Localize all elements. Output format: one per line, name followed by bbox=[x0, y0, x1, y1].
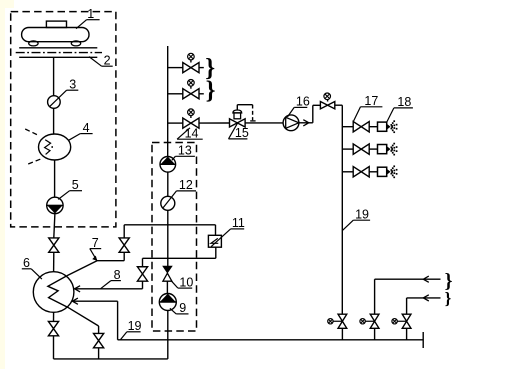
svg-text:4: 4 bbox=[83, 121, 90, 135]
svg-text:12: 12 bbox=[179, 178, 193, 192]
svg-text:3: 3 bbox=[69, 77, 76, 91]
svg-text:10: 10 bbox=[179, 275, 193, 289]
svg-text:8: 8 bbox=[114, 268, 121, 282]
svg-text:19: 19 bbox=[128, 319, 142, 333]
svg-text:2: 2 bbox=[104, 53, 111, 67]
svg-text:5: 5 bbox=[72, 178, 79, 192]
svg-text:7: 7 bbox=[92, 236, 99, 250]
svg-text:16: 16 bbox=[296, 95, 310, 109]
svg-text:13: 13 bbox=[178, 144, 192, 158]
svg-text:19: 19 bbox=[355, 207, 369, 221]
svg-text:9: 9 bbox=[179, 301, 186, 315]
svg-text:11: 11 bbox=[232, 216, 245, 230]
svg-text:6: 6 bbox=[23, 256, 30, 270]
svg-text:17: 17 bbox=[364, 94, 378, 108]
svg-text:}: } bbox=[445, 289, 452, 308]
svg-text:1: 1 bbox=[87, 7, 94, 21]
svg-text:18: 18 bbox=[397, 95, 411, 109]
svg-text:14: 14 bbox=[185, 126, 199, 140]
svg-text:15: 15 bbox=[235, 126, 249, 140]
svg-text:}: } bbox=[206, 77, 216, 104]
